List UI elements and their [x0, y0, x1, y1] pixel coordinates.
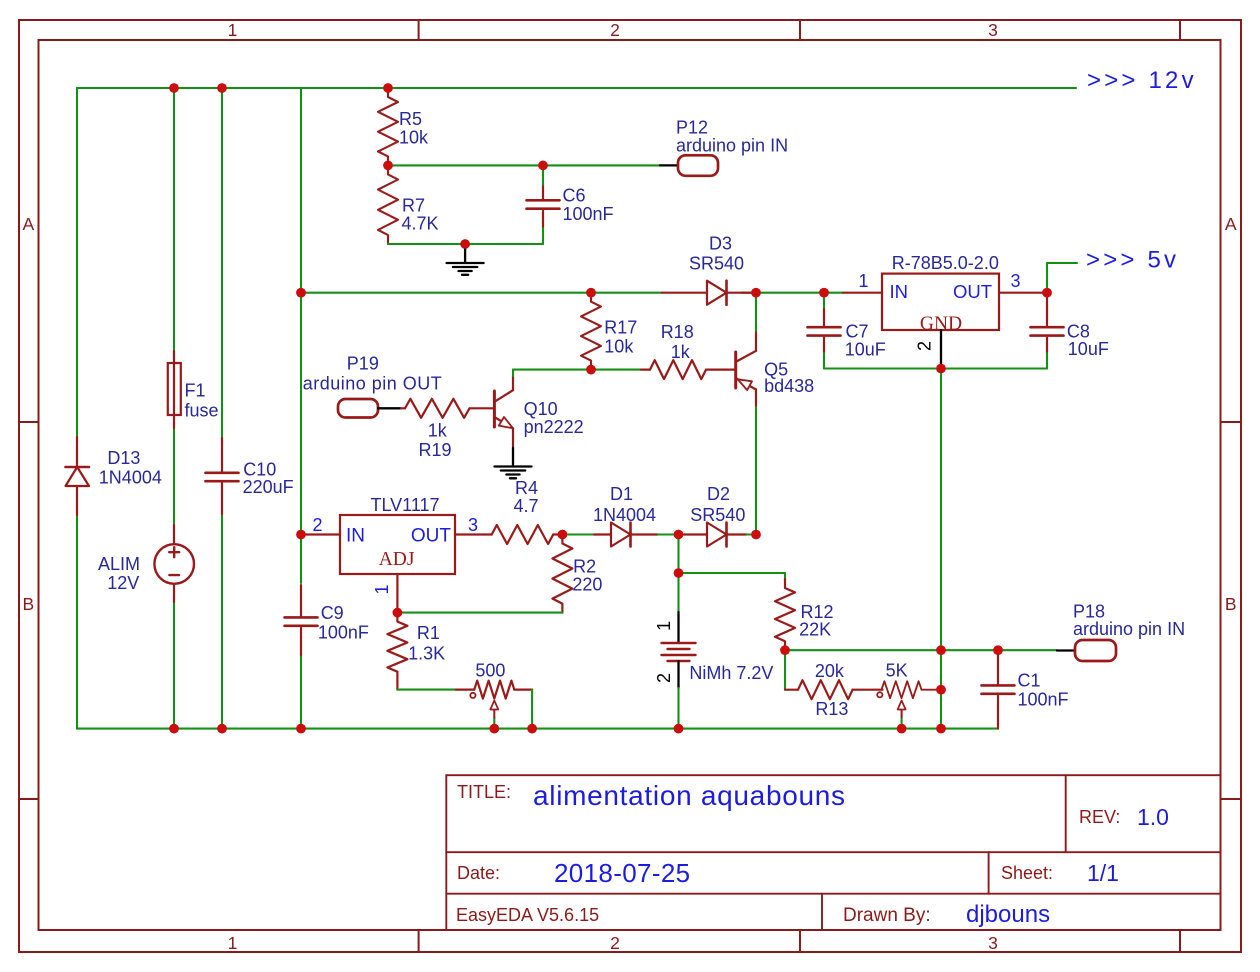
junction TLV in	[296, 530, 306, 540]
junction R17 top	[586, 288, 596, 298]
svg-text:OUT: OUT	[411, 526, 452, 547]
svg-text:Sheet:: Sheet:	[1001, 863, 1053, 883]
svg-text:R1: R1	[417, 623, 440, 643]
svg-text:2: 2	[915, 341, 935, 351]
svg-text:ALIM: ALIM	[98, 554, 140, 574]
battery NiMh 7.2V	[654, 612, 773, 688]
diode D3	[662, 234, 754, 305]
potentiometer 500	[456, 661, 532, 699]
wire R4out to D1	[562, 533, 594, 535]
regulator R-78B5.0-2.0	[882, 253, 999, 335]
label R4 name	[515, 478, 538, 498]
junction dots 12v rail	[169, 83, 393, 93]
svg-text:D3: D3	[709, 234, 732, 254]
svg-text:1N4004: 1N4004	[593, 505, 656, 525]
svg-text:100nF: 100nF	[318, 623, 369, 643]
svg-text:2018-07-25: 2018-07-25	[554, 858, 691, 888]
resistor R7	[378, 165, 439, 244]
resistor R2	[552, 535, 602, 613]
wire R12 to R13	[784, 650, 786, 690]
svg-text:5K: 5K	[886, 660, 908, 680]
title block	[446, 775, 1220, 930]
svg-text:P19: P19	[347, 353, 379, 373]
junction C6 top	[538, 161, 548, 171]
svg-text:R13: R13	[815, 699, 848, 719]
junction battery branch	[674, 568, 684, 578]
svg-text:1: 1	[858, 271, 868, 291]
diode D1	[593, 484, 658, 547]
regulator TLV1117 pin3 lead	[455, 515, 485, 535]
svg-text:IN: IN	[346, 526, 365, 547]
junction ground node	[460, 239, 470, 249]
junction D3 out	[751, 288, 761, 298]
svg-text:bd438: bd438	[764, 376, 814, 396]
net flag 12v	[1087, 67, 1197, 94]
wire Q10 collector	[512, 370, 514, 376]
wire gnd vertical x941	[940, 369, 942, 729]
svg-text:ADJ: ADJ	[379, 549, 415, 570]
wire D1 to node	[658, 533, 679, 535]
resistor R19	[401, 399, 494, 460]
svg-text:Date:: Date:	[457, 863, 500, 883]
junction x941 P18row	[936, 645, 946, 655]
transistor Q5	[736, 331, 814, 407]
pad P19	[303, 353, 443, 417]
svg-text:3: 3	[988, 933, 998, 953]
svg-text:D13: D13	[107, 448, 140, 468]
ground	[447, 244, 484, 275]
svg-text:arduino pin IN: arduino pin IN	[676, 136, 788, 156]
junction R12 bottom	[780, 645, 790, 655]
svg-text:1: 1	[654, 621, 674, 631]
svg-text:1k: 1k	[671, 342, 691, 362]
svg-text:1N4004: 1N4004	[99, 467, 162, 487]
diode D2	[679, 484, 747, 547]
pot 5K wiper	[898, 701, 906, 729]
pad P18	[1073, 601, 1185, 661]
svg-text:Drawn By:: Drawn By:	[843, 905, 931, 926]
potentiometer 5K	[877, 660, 941, 698]
wire pot right down	[531, 690, 533, 729]
svg-text:alimentation aquabouns: alimentation aquabouns	[533, 780, 846, 811]
capacitor C10	[206, 438, 294, 514]
regulator U-R78B5 pin1 lead	[843, 271, 882, 293]
junction battery top	[674, 530, 684, 540]
net flag 5v	[1086, 247, 1179, 274]
capacitor C8	[1031, 293, 1109, 369]
svg-text:20k: 20k	[815, 661, 845, 681]
pin lead P12	[660, 164, 678, 166]
resistor R1	[387, 613, 445, 690]
svg-text:NiMh 7.2V: NiMh 7.2V	[689, 663, 773, 683]
diode D13	[66, 437, 162, 515]
junction mid-x301	[296, 288, 306, 298]
svg-text:100nF: 100nF	[1018, 689, 1069, 709]
junction regulator gnd	[936, 364, 946, 374]
svg-text:1: 1	[228, 20, 238, 40]
wire ADJ row	[397, 612, 562, 614]
svg-text:1.3K: 1.3K	[408, 644, 445, 664]
svg-text:SR540: SR540	[689, 254, 744, 274]
svg-text:A: A	[22, 214, 34, 234]
junction dots overlay	[169, 83, 1052, 733]
junction C1 top	[993, 645, 1003, 655]
regulator TLV1117 pin2 lead	[301, 515, 340, 535]
svg-text:10uF: 10uF	[845, 339, 886, 359]
svg-text:SR540: SR540	[690, 505, 745, 525]
svg-text:1.0: 1.0	[1137, 804, 1169, 830]
junction dots ground rail	[169, 724, 306, 734]
svg-text:D2: D2	[707, 484, 730, 504]
svg-text:2: 2	[312, 515, 322, 535]
svg-text:B: B	[1225, 594, 1237, 614]
junction x941 gnd	[936, 724, 946, 734]
ground Q10	[495, 448, 532, 479]
svg-text:22K: 22K	[799, 620, 831, 640]
svg-text:100nF: 100nF	[563, 204, 614, 224]
pin lead P18	[1057, 649, 1075, 651]
regulator pin3 lead	[999, 271, 1044, 293]
svg-text:4.7: 4.7	[514, 496, 539, 516]
source ALIM 12V	[98, 525, 194, 602]
svg-text:D1: D1	[610, 484, 633, 504]
svg-text:C9: C9	[321, 603, 344, 623]
svg-text:2: 2	[610, 933, 620, 953]
wire base row	[513, 369, 641, 371]
wire Q5 collector down	[755, 407, 757, 535]
svg-text:3: 3	[988, 20, 998, 40]
wire battery bottom	[677, 688, 679, 729]
capacitor C6	[527, 165, 614, 244]
svg-text:OUT: OUT	[953, 281, 992, 302]
svg-text:4.7K: 4.7K	[402, 213, 439, 233]
wire Q5 emitter up	[755, 293, 757, 331]
wire ground rail	[77, 728, 998, 730]
svg-text:R18: R18	[661, 322, 694, 342]
resistor R13	[785, 661, 883, 719]
svg-text:R5: R5	[399, 109, 422, 129]
svg-text:12V: 12V	[107, 573, 139, 593]
svg-text:pn2222: pn2222	[524, 417, 584, 437]
svg-text:C6: C6	[563, 186, 586, 206]
svg-text:C1: C1	[1018, 670, 1041, 690]
wire P18 row	[785, 649, 1057, 651]
junction 5v out	[1042, 288, 1052, 298]
junction wiper 5K	[897, 724, 907, 734]
capacitor C9	[285, 585, 369, 655]
svg-text:djbouns: djbouns	[966, 901, 1050, 928]
wire 5v input rail	[301, 292, 843, 294]
pot 500 wiper	[490, 701, 498, 729]
resistor R12	[775, 573, 834, 650]
svg-text:220uF: 220uF	[243, 477, 294, 497]
regulator TLV1117	[340, 495, 455, 574]
svg-text:EasyEDA V5.6.15: EasyEDA V5.6.15	[456, 905, 599, 925]
label R4 value	[514, 496, 539, 516]
svg-text:TITLE:: TITLE:	[457, 782, 511, 802]
svg-text:B: B	[22, 594, 34, 614]
resistor R18	[641, 322, 736, 379]
svg-text:REV:: REV:	[1079, 807, 1120, 827]
wire C7-C8 ground link	[824, 367, 1047, 369]
wire R5-C6-P12 row	[388, 164, 660, 166]
wire node to R12	[679, 572, 786, 574]
svg-text:2: 2	[610, 20, 620, 40]
svg-text:IN: IN	[890, 281, 909, 302]
junction pot500 right	[527, 724, 537, 734]
fuse F1	[168, 351, 219, 428]
svg-text:arduino pin OUT: arduino pin OUT	[303, 374, 443, 394]
junction C7 top	[819, 288, 829, 298]
svg-text:TLV1117: TLV1117	[370, 495, 439, 515]
svg-text:220: 220	[572, 574, 602, 594]
svg-text:>>> 12v: >>> 12v	[1087, 67, 1197, 94]
capacitor C1	[982, 650, 1069, 728]
resistor R5	[378, 88, 429, 165]
wire D2 out	[747, 533, 756, 535]
svg-text:2: 2	[654, 673, 674, 683]
transistor Q10	[494, 376, 583, 446]
svg-text:1: 1	[372, 584, 392, 594]
junction D2 cathode	[751, 530, 761, 540]
wire 5v flag stub	[1047, 263, 1077, 293]
wire fuse column	[173, 88, 175, 729]
junction ADJ	[393, 608, 403, 618]
regulator TLV1117 pin1 lead	[372, 574, 397, 613]
svg-text:>>> 5v: >>> 5v	[1086, 247, 1179, 274]
svg-text:3: 3	[468, 515, 478, 535]
svg-text:Q10: Q10	[524, 399, 558, 419]
svg-text:fuse: fuse	[185, 400, 219, 420]
wire left vertical (ALIM+)	[76, 88, 78, 729]
junction 5K right	[936, 685, 946, 695]
capacitor C7	[808, 293, 886, 369]
resistor R17	[581, 293, 637, 370]
svg-text:10uF: 10uF	[1068, 339, 1109, 359]
wire battery column	[677, 535, 679, 613]
svg-text:1/1: 1/1	[1087, 860, 1119, 886]
pin lead P19	[378, 407, 401, 409]
wire R7 bottom to C6 bottom	[388, 243, 543, 245]
svg-text:1k: 1k	[428, 421, 448, 441]
junction R4 out	[558, 530, 568, 540]
svg-text:10k: 10k	[604, 337, 634, 357]
svg-text:R4: R4	[515, 478, 538, 498]
wire x301 column	[300, 88, 302, 729]
svg-text:arduino pin IN: arduino pin IN	[1073, 619, 1185, 639]
svg-text:F1: F1	[185, 381, 206, 401]
svg-text:R7: R7	[402, 195, 425, 215]
svg-text:10k: 10k	[399, 128, 429, 148]
svg-text:A: A	[1225, 214, 1237, 234]
svg-text:R19: R19	[419, 440, 452, 460]
junction R5/R7	[383, 161, 393, 171]
svg-text:P12: P12	[676, 118, 708, 138]
wire C10 column	[221, 88, 223, 729]
junction R17 bottom	[586, 365, 596, 375]
resistor R4	[485, 525, 562, 544]
wire R1 to pot	[397, 689, 456, 691]
junction wiper 500	[490, 724, 500, 734]
pad P12	[676, 118, 788, 176]
svg-text:R17: R17	[604, 318, 637, 338]
regulator pin2 lead	[915, 330, 942, 369]
svg-text:3: 3	[1010, 271, 1020, 291]
svg-text:1: 1	[228, 933, 238, 953]
junction battery gnd	[674, 724, 684, 734]
svg-text:500: 500	[475, 661, 505, 681]
wire 12v rail	[77, 87, 1076, 89]
svg-text:R-78B5.0-2.0: R-78B5.0-2.0	[892, 253, 999, 273]
